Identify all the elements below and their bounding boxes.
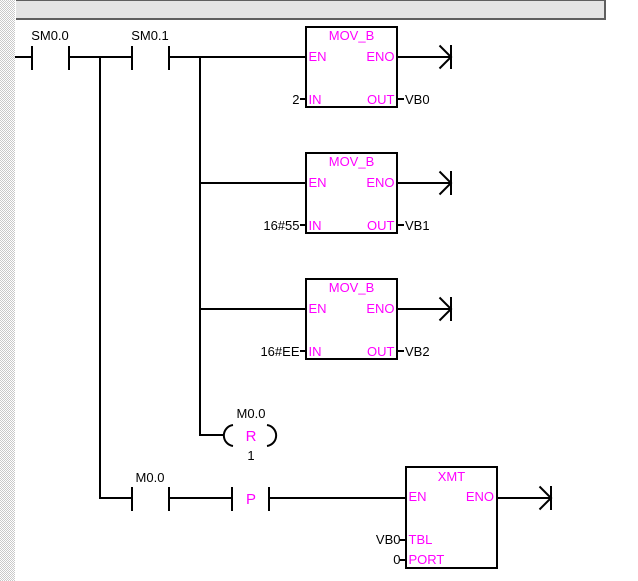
svg-text:OUT: OUT bbox=[367, 218, 395, 233]
svg-text:IN: IN bbox=[309, 92, 322, 107]
svg-text:MOV_B: MOV_B bbox=[329, 280, 375, 295]
wire ENO output (block 3) bbox=[398, 308, 450, 310]
svg-text:1: 1 bbox=[247, 448, 254, 463]
svg-text:TBL: TBL bbox=[409, 532, 433, 547]
svg-text:M0.0: M0.0 bbox=[136, 470, 165, 485]
svg-text:EN: EN bbox=[309, 175, 327, 190]
svg-text:P: P bbox=[246, 491, 256, 508]
wire tick OUT (block 3) bbox=[397, 350, 404, 352]
svg-text:2: 2 bbox=[292, 92, 299, 107]
svg-text:R: R bbox=[246, 428, 257, 445]
contact SM0.0 bbox=[31, 46, 70, 70]
wire tick OUT (block 1) bbox=[397, 98, 404, 100]
junction branch down to network 5 bbox=[99, 56, 101, 499]
svg-text:EN: EN bbox=[309, 301, 327, 316]
svg-text:VB0: VB0 bbox=[376, 532, 401, 547]
svg-text:16#EE: 16#EE bbox=[260, 344, 299, 359]
svg-text:ENO: ENO bbox=[366, 49, 394, 64]
wire tick PORT bbox=[400, 559, 406, 561]
wire tick OUT (block 2) bbox=[397, 224, 404, 226]
svg-text:SM0.1: SM0.1 bbox=[131, 28, 169, 43]
left margin strip bbox=[0, 0, 15, 581]
svg-text:EN: EN bbox=[409, 489, 427, 504]
end arrow network 2 bbox=[440, 171, 453, 195]
svg-text:VB2: VB2 bbox=[405, 344, 430, 359]
wire branch to MOV_B block 2 bbox=[201, 182, 305, 184]
svg-text:IN: IN bbox=[309, 218, 322, 233]
svg-text:MOV_B: MOV_B bbox=[329, 28, 375, 43]
svg-text:ENO: ENO bbox=[366, 301, 394, 316]
svg-text:16#55: 16#55 bbox=[263, 218, 299, 233]
wire M0.0 to P contact bbox=[170, 497, 231, 499]
coil R M0.0 bbox=[224, 425, 276, 446]
toolbar bbox=[16, 0, 606, 20]
wire ENO output (XMT) bbox=[498, 497, 550, 499]
end arrow network 1 bbox=[440, 45, 453, 69]
svg-text:M0.0: M0.0 bbox=[237, 406, 266, 421]
wire SM0.0 to SM0.1 bbox=[70, 56, 131, 58]
svg-text:OUT: OUT bbox=[367, 344, 395, 359]
wire SM0.1 to MOV_B block 1 bbox=[170, 56, 305, 58]
wire ENO output (block 1) bbox=[398, 56, 450, 58]
contact SM0.1 bbox=[131, 46, 170, 70]
svg-text:VB1: VB1 bbox=[405, 218, 430, 233]
svg-text:ENO: ENO bbox=[466, 489, 494, 504]
svg-text:XMT: XMT bbox=[438, 469, 466, 484]
XMT block bbox=[406, 467, 497, 568]
wire left stub network 1 bbox=[15, 56, 31, 58]
contact M0.0 bbox=[131, 487, 170, 511]
svg-text:VB0: VB0 bbox=[405, 92, 430, 107]
wire tick TBL bbox=[400, 539, 406, 541]
end arrow network 5 bbox=[540, 486, 553, 510]
svg-text:PORT: PORT bbox=[409, 552, 445, 567]
svg-text:EN: EN bbox=[309, 49, 327, 64]
svg-text:OUT: OUT bbox=[367, 92, 395, 107]
wire elbow to reset coil bbox=[199, 434, 223, 436]
wire branch to MOV_B block 3 bbox=[201, 308, 305, 310]
wire tick IN (block 3) bbox=[300, 350, 306, 352]
end arrow network 3 bbox=[440, 297, 453, 321]
svg-text:0: 0 bbox=[393, 552, 400, 567]
wire P contact to XMT block bbox=[270, 497, 405, 499]
MOV_B block 1 bbox=[306, 27, 397, 107]
junction branch down to lower rungs bbox=[199, 56, 201, 436]
contact P (positive edge) bbox=[231, 487, 270, 511]
svg-text:ENO: ENO bbox=[366, 175, 394, 190]
svg-text:IN: IN bbox=[309, 344, 322, 359]
MOV_B block 3 bbox=[306, 279, 397, 359]
MOV_B block 2 bbox=[306, 153, 397, 233]
wire ENO output (block 2) bbox=[398, 182, 450, 184]
wire tick IN (block 2) bbox=[300, 224, 306, 226]
wire tick IN (block 1) bbox=[300, 98, 306, 100]
svg-text:SM0.0: SM0.0 bbox=[31, 28, 69, 43]
svg-text:MOV_B: MOV_B bbox=[329, 154, 375, 169]
wire elbow to M0.0 contact bbox=[99, 497, 131, 499]
